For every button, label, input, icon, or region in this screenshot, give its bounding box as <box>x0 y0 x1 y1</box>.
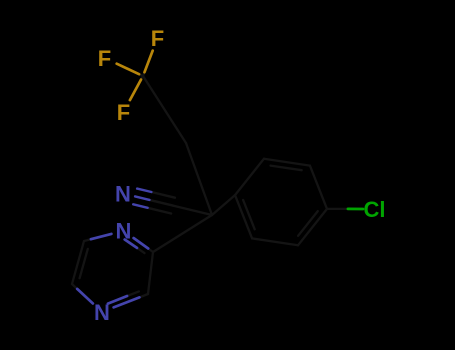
bond chain lower segment <box>186 143 212 215</box>
pyrazine bond C3=N4 double <box>139 294 148 297</box>
svg-text:F: F <box>151 26 164 51</box>
svg-text:N: N <box>115 181 131 206</box>
pyrazine bond N1=C2 double <box>148 249 153 253</box>
benzene bond UL-UR top edge double <box>264 159 310 166</box>
benzene bond BR-BL bottom edge <box>252 238 298 245</box>
bond C-F left <box>139 74 143 76</box>
svg-text:Cl: Cl <box>364 197 386 222</box>
benzene bond L-UL <box>235 159 264 195</box>
bond C-Cl <box>327 208 348 210</box>
benzene bond ipso-BR double <box>298 209 327 245</box>
benzene bond UR-ipso <box>310 166 327 209</box>
svg-text:F: F <box>98 46 111 71</box>
pyrazine bond C6-N1 <box>84 239 91 241</box>
pyrazine bond N4-C5 <box>72 284 77 289</box>
bond C-F bottom <box>141 76 143 80</box>
nitrile triple bond <box>148 208 172 214</box>
bond central C to nitrile C <box>173 206 212 215</box>
svg-text:F: F <box>117 100 130 125</box>
bond central C to benzene L vertex <box>212 195 235 215</box>
benzene bond BL-L double <box>235 195 252 238</box>
bond C-F top <box>143 72 145 76</box>
bond pyrazine C2 to central C <box>153 215 212 252</box>
pyrazine bond C2-C3 <box>148 252 153 294</box>
bond chain upper segment <box>143 76 186 143</box>
pyrazine bond C5=C6 double <box>72 241 84 284</box>
